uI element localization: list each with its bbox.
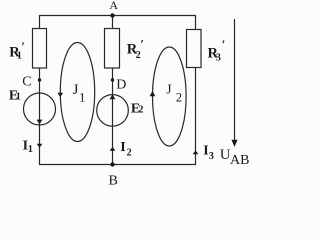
svg-text:1: 1	[28, 144, 33, 155]
svg-text:J: J	[166, 82, 171, 97]
svg-text:2: 2	[136, 50, 141, 61]
svg-text:′: ′	[222, 37, 226, 52]
svg-text:J: J	[73, 82, 79, 98]
svg-text:1: 1	[79, 90, 86, 105]
svg-text:′: ′	[140, 37, 144, 52]
svg-text:1: 1	[16, 92, 21, 103]
svg-text:AB: AB	[230, 153, 249, 168]
svg-text:2: 2	[138, 105, 143, 116]
svg-text:′: ′	[21, 39, 25, 54]
svg-text:C: C	[22, 75, 31, 90]
svg-text:I: I	[203, 144, 208, 159]
svg-text:2: 2	[176, 90, 182, 104]
svg-text:A: A	[109, 0, 118, 12]
svg-text:D: D	[116, 78, 126, 93]
svg-text:3: 3	[216, 53, 221, 64]
svg-text:B: B	[109, 173, 118, 186]
svg-text:I: I	[120, 140, 125, 155]
svg-text:2: 2	[127, 147, 132, 158]
svg-text:3: 3	[209, 151, 214, 162]
